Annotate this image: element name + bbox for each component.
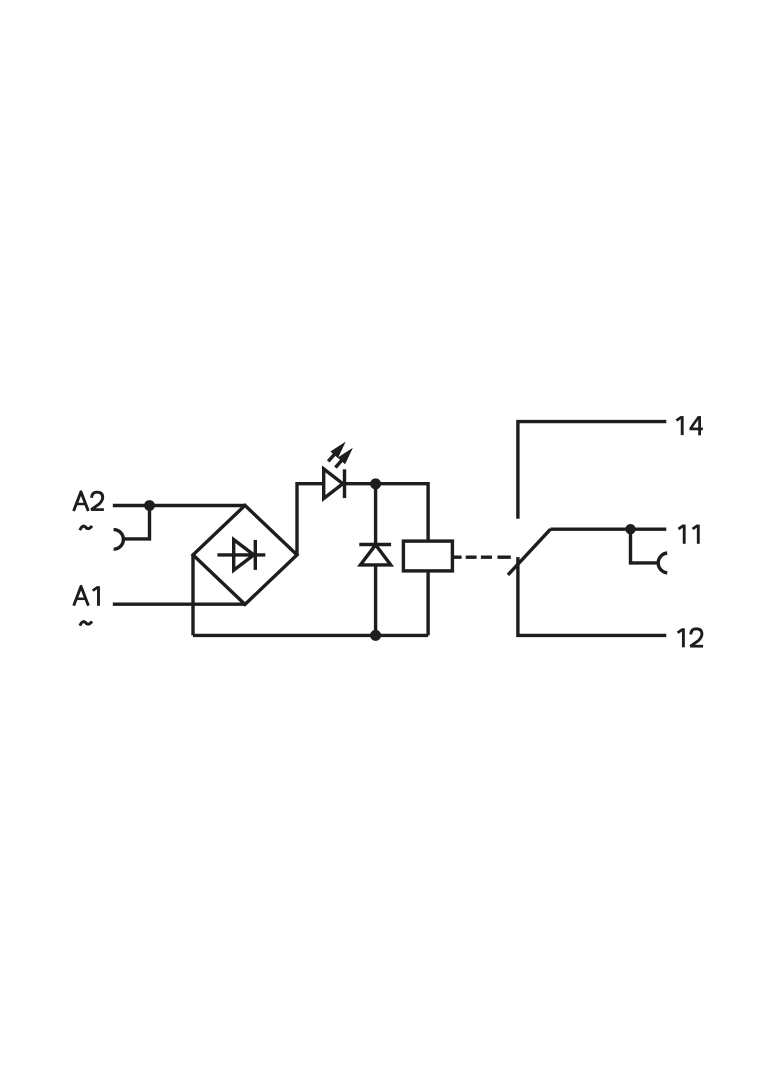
node junction on A2 wire	[144, 500, 155, 511]
freewheel diode triangle	[360, 545, 390, 565]
contact 14 branch wire	[518, 422, 666, 519]
terminal label 11	[678, 525, 698, 544]
LED cathode bar	[343, 469, 346, 498]
wire node down to freewheel diode	[374, 484, 377, 545]
bridge inner diode triangle	[234, 540, 254, 571]
wire bridge right corner riser to LED	[297, 484, 324, 555]
contact 12 branch wire	[518, 557, 666, 635]
switch blade	[508, 529, 551, 575]
terminal label A2	[74, 492, 104, 511]
LED emission arrow 1	[328, 442, 346, 462]
wire A1 to bridge	[113, 603, 245, 606]
bridge inner diode line	[217, 553, 265, 556]
wire blade to terminal 11	[551, 528, 667, 531]
LED triangle	[324, 469, 343, 499]
freewheel diode cathode bar	[359, 543, 391, 546]
node LED output junction	[370, 478, 381, 489]
LED emission arrow 2	[335, 448, 353, 468]
clamp contact at 11	[658, 553, 667, 573]
wire coil to bottom rail	[426, 571, 429, 636]
node bottom rail junction	[370, 630, 381, 641]
bridge rectifier	[193, 505, 297, 604]
terminal label 12	[678, 628, 704, 647]
relay coil	[403, 541, 452, 571]
wire junction down to clamp	[123, 506, 150, 539]
wire freewheel diode to bottom rail	[374, 565, 377, 636]
wire LED to coil drop	[345, 484, 429, 541]
wire bridge left corner to bottom rail	[191, 555, 194, 636]
node on 11 wire	[625, 524, 635, 534]
clamp contact at A2	[114, 530, 124, 550]
terminal label 14	[676, 416, 703, 435]
wire A2 to bridge	[113, 504, 245, 507]
AC symbol under A1	[80, 621, 92, 625]
terminal label A1	[74, 586, 99, 606]
wire node down to clamp at 11	[631, 529, 658, 563]
wire bottom rail	[193, 634, 428, 637]
AC symbol under A2	[80, 526, 92, 530]
bridge inner diode cathode bar	[254, 540, 257, 570]
actuator dashed link	[452, 556, 511, 559]
